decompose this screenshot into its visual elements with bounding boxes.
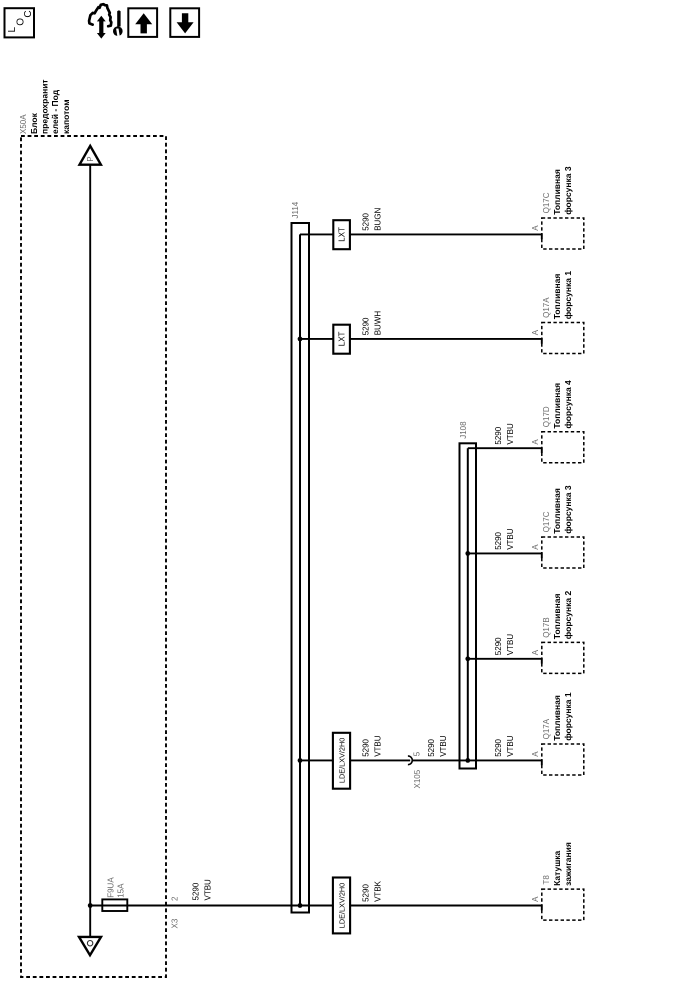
svg-text:5290: 5290 — [494, 738, 503, 756]
terminal tick fuel injector 3 (row1) — [541, 233, 543, 239]
component Q17A Топливная форсунка 1 dashed box — [542, 744, 584, 775]
pin A of fuel injector 3 (row1) — [531, 225, 540, 231]
wire label 5290 VTBU (row 7 left) — [192, 879, 213, 901]
svg-text:2: 2 — [171, 896, 180, 901]
svg-text:Q17A: Q17A — [542, 297, 551, 318]
svg-text:5290: 5290 — [362, 212, 371, 230]
svg-text:O: O — [16, 18, 27, 26]
svg-text:L: L — [7, 27, 18, 33]
pin A of fuel injector 1 (row6) — [531, 751, 540, 757]
pin A of fuel injector 3 (row4) — [531, 544, 540, 550]
Q17A description — [552, 271, 573, 320]
svg-text:5290: 5290 — [427, 738, 436, 756]
Q17A description — [552, 692, 573, 741]
svg-text:15A: 15A — [116, 883, 125, 898]
terminal tick ignition coil T8 — [541, 905, 543, 911]
svg-text:предохранит: предохранит — [40, 79, 50, 134]
component T8 Катушка зажигания dashed box — [542, 889, 584, 920]
svg-text:VTBU: VTBU — [204, 879, 213, 901]
svg-text:LXT: LXT — [338, 331, 347, 346]
Q17A designator — [542, 297, 551, 318]
svg-text:5290: 5290 — [362, 884, 371, 902]
svg-text:Блок: Блок — [29, 112, 39, 134]
svg-text:VTBU: VTBU — [506, 634, 515, 656]
Q17D description — [552, 380, 573, 429]
svg-text:форсунка 4: форсунка 4 — [563, 380, 573, 429]
svg-text:Топливная: Топливная — [552, 695, 562, 741]
svg-text:C: C — [23, 10, 34, 17]
svg-text:X50A: X50A — [19, 114, 28, 134]
splice pack J114 — [292, 223, 310, 913]
svg-text:VTBU: VTBU — [506, 423, 515, 445]
svg-text:Q17C: Q17C — [542, 511, 551, 532]
X105 pin 5 label — [412, 751, 421, 756]
junction J108/row5 — [465, 656, 470, 661]
svg-text:X105: X105 — [413, 769, 422, 788]
J108 label — [459, 421, 468, 439]
wire label 5290 BUGN — [362, 207, 383, 230]
wire label 5290 VTBU (row4) — [494, 528, 515, 550]
component Q17A Топливная форсунка 1 dashed box — [542, 323, 584, 354]
terminal tick fuel injector 2 (row5) — [541, 658, 543, 664]
svg-text:A: A — [531, 649, 540, 655]
junction J108/row4 — [465, 551, 470, 556]
svg-text:BUGN: BUGN — [374, 207, 383, 230]
wire row5: J108 to Q17B — [468, 658, 542, 660]
wire row6: X105 to J108 — [413, 759, 468, 761]
svg-text:5290: 5290 — [362, 738, 371, 756]
option box LXT (row2) — [333, 325, 350, 354]
X105 designator — [413, 769, 422, 788]
svg-text:5: 5 — [412, 751, 421, 756]
svg-text:Топливная: Топливная — [552, 594, 562, 640]
down arrow button — [170, 8, 199, 37]
svg-text:A: A — [531, 751, 540, 757]
svg-text:Топливная: Топливная — [552, 488, 562, 534]
svg-text:5290: 5290 — [494, 531, 503, 549]
wire row6: J108 to Q17A — [468, 759, 542, 761]
jump icon: outline blob with double arrow and wrench — [89, 4, 123, 38]
svg-text:форсунка 2: форсунка 2 — [563, 591, 573, 640]
option box LDE/LXV/2H0 (row7) — [333, 878, 350, 934]
svg-text:LDE/LXV/2H0: LDE/LXV/2H0 — [338, 883, 347, 928]
splice pack J108 — [460, 443, 477, 768]
svg-text:A: A — [531, 225, 540, 231]
Q17B description — [552, 591, 573, 640]
wire: fuse row horizontal — [90, 905, 291, 907]
component Q17C Топливная форсунка 3 dashed box — [542, 218, 584, 249]
option box LXT (row1) — [333, 220, 350, 249]
power feed triangle P — [80, 146, 101, 165]
Q17D designator — [542, 406, 551, 427]
svg-text:LXT: LXT — [338, 227, 347, 242]
svg-text:5290: 5290 — [494, 426, 503, 444]
wire row2: J114 to Q17A — [300, 338, 542, 340]
svg-text:Q17D: Q17D — [542, 406, 551, 427]
svg-text:5290: 5290 — [192, 882, 201, 900]
wire: vertical feed inside X50A — [89, 165, 91, 937]
svg-text:A: A — [531, 896, 540, 902]
svg-text:Топливная: Топливная — [552, 169, 562, 215]
svg-text:LDE/LXV/2H0: LDE/LXV/2H0 — [338, 738, 347, 783]
svg-text:Q17B: Q17B — [542, 617, 551, 637]
svg-text:зажигания: зажигания — [563, 842, 573, 886]
pin A of ignition coil T8 — [531, 896, 540, 902]
junction J108/row6 — [465, 758, 470, 763]
T8 description — [552, 842, 573, 886]
up arrow button — [128, 8, 157, 37]
bus bar triangle with circle — [79, 937, 101, 955]
option box LDE/LXV/2H0 (row6) — [333, 733, 350, 789]
pin A of fuel injector 2 (row5) — [531, 649, 540, 655]
wire row7: J114 to T8 — [292, 905, 542, 907]
svg-text:F9UA: F9UA — [107, 877, 116, 898]
svg-text:елей - Под: елей - Под — [50, 89, 60, 134]
inline connector X105 arc — [408, 756, 412, 765]
svg-text:Q17A: Q17A — [542, 718, 551, 739]
junction J114/row2 — [298, 337, 303, 342]
svg-text:A: A — [531, 329, 540, 335]
X50A description — [29, 79, 71, 134]
svg-text:VTBK: VTBK — [374, 880, 383, 902]
terminal tick fuel injector 1 (row6) — [541, 759, 543, 765]
LOC icon box — [5, 8, 35, 37]
Q17B designator — [542, 617, 551, 637]
component Q17D Топливная форсунка 4 dashed box — [542, 432, 584, 463]
J114 label — [291, 201, 300, 218]
svg-text:VTBU: VTBU — [439, 735, 448, 757]
fuse block X50A dashed box — [21, 136, 166, 977]
svg-text:P: P — [86, 156, 95, 161]
svg-text:капотом: капотом — [61, 99, 71, 134]
svg-text:VTBU: VTBU — [506, 528, 515, 550]
svg-text:T8: T8 — [542, 875, 551, 885]
svg-text:A: A — [531, 439, 540, 445]
terminal tick fuel injector 3 (row4) — [541, 552, 543, 558]
Q17C description — [552, 166, 573, 215]
wire label 5290 VTBU (row5) — [494, 634, 515, 656]
Q17C description — [552, 485, 573, 534]
pin A of fuel injector 1 (row2) — [531, 329, 540, 335]
svg-text:J108: J108 — [459, 421, 468, 439]
svg-text:Топливная: Топливная — [552, 383, 562, 429]
junction at fuse feed — [88, 903, 93, 908]
connector X3 pin 2 labels — [171, 896, 180, 929]
T8 designator — [542, 875, 551, 885]
svg-text:BUWH: BUWH — [374, 311, 383, 336]
svg-text:форсунка 3: форсунка 3 — [563, 166, 573, 215]
junction J114/row7 — [298, 903, 303, 908]
terminal tick fuel injector 1 (row2) — [541, 338, 543, 344]
svg-text:5290: 5290 — [494, 637, 503, 655]
svg-text:A: A — [531, 544, 540, 550]
svg-text:форсунка 3: форсунка 3 — [563, 485, 573, 534]
wire row4: J108 to Q17C — [468, 552, 542, 554]
wire label 5290 VTBU (row3) — [494, 423, 515, 445]
wire row1: J114 to Q17C — [300, 233, 542, 235]
svg-text:VTBU: VTBU — [374, 735, 383, 757]
terminal tick fuel injector 4 (row3) — [541, 447, 543, 453]
wire label 5290 VTBK — [362, 880, 383, 902]
svg-text:Топливная: Топливная — [552, 274, 562, 320]
svg-text:5290: 5290 — [362, 317, 371, 335]
pin A of fuel injector 4 (row3) — [531, 439, 540, 445]
svg-text:VTBU: VTBU — [506, 735, 515, 757]
component Q17C Топливная форсунка 3 dashed box — [542, 537, 584, 568]
svg-text:форсунка 1: форсунка 1 — [563, 692, 573, 741]
X50A designator label — [19, 114, 28, 134]
wire label 5290 VTBU (row6 c) — [494, 735, 515, 757]
wire row3: J108 to Q17D — [468, 447, 542, 449]
svg-text:Катушка: Катушка — [552, 850, 562, 885]
svg-text:форсунка 1: форсунка 1 — [563, 271, 573, 320]
svg-text:J114: J114 — [291, 201, 300, 218]
junction J114/row6 — [298, 758, 303, 763]
wire label 5290 VTBU (row6 a) — [362, 735, 383, 757]
Q17C designator — [542, 192, 551, 213]
svg-text:Q17C: Q17C — [542, 192, 551, 213]
Q17C designator — [542, 511, 551, 532]
wire label 5290 BUWH — [362, 311, 383, 336]
component Q17B Топливная форсунка 2 dashed box — [542, 642, 584, 673]
wire label 5290 VTBU (row6 b) — [427, 735, 448, 757]
svg-text:X3: X3 — [171, 918, 180, 928]
wire row6: J114 to X105 — [300, 759, 410, 761]
fuse F9UA 15A — [102, 899, 127, 911]
Q17A designator — [542, 718, 551, 739]
